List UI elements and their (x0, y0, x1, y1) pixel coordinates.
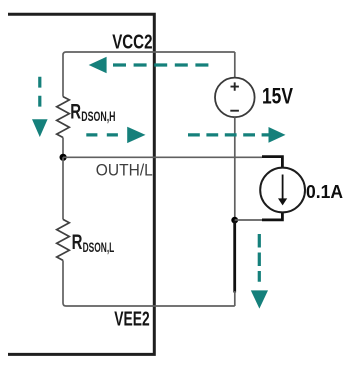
svg-text:VEE2: VEE2 (114, 307, 149, 330)
flow arrow: downward at bottom right (251, 234, 268, 309)
wire: VCC2 top rail and left rail upper (63, 52, 235, 97)
svg-text:R: R (72, 231, 83, 254)
node OUTH/L junction dot (60, 154, 67, 161)
wire: OUTH/L rail (63, 156, 262, 158)
V1 plus sign (231, 82, 239, 90)
wire: thin continuation to VEE2 rail corner (234, 291, 236, 306)
wire: thick step to current source top (262, 157, 282, 168)
svg-text:DSON,H: DSON,H (81, 108, 115, 124)
resistor R_DSON,H (57, 97, 70, 138)
V1 minus sign (230, 110, 239, 112)
voltage source V1 (15V) (215, 78, 255, 118)
svg-text:15V: 15V (262, 83, 293, 108)
wire: node to current source bottom (thin part) (235, 219, 263, 221)
resistor R_DSON,L (57, 219, 70, 260)
wire: voltage source branch top (234, 52, 236, 78)
wire: thick step from current source bottom (262, 212, 282, 220)
I1 arrow down (282, 175, 284, 200)
wire: voltage source branch bottom (234, 117, 236, 220)
flow arrow: rightward toward current source (188, 127, 286, 143)
svg-text:OUTH/L: OUTH/L (96, 161, 153, 180)
svg-text:DSON,L: DSON,L (83, 239, 115, 255)
IC boundary (gate driver outline) (8, 14, 154, 354)
node bottom junction dot (231, 217, 238, 224)
wire: left rail lower (node to R_DSON,L) (62, 157, 64, 219)
svg-text:0.1A: 0.1A (306, 182, 343, 202)
svg-text:VCC2: VCC2 (112, 31, 152, 54)
wire: left rail middle (R_DSON,H to node OUTH/L) (62, 138, 64, 158)
wire: left rail bottom and VEE2 bottom rail (63, 260, 235, 306)
flow arrow: rightward inside IC toward border (86, 127, 145, 143)
flow arrow: downward at left rail (32, 77, 48, 137)
flow arrow: left-pointing along VCC2 rail (89, 57, 209, 73)
wire: thick vertical below node to VEE2 rail (233, 220, 236, 292)
current source I1 (0.1A) (260, 168, 305, 213)
svg-text:R: R (70, 100, 81, 123)
